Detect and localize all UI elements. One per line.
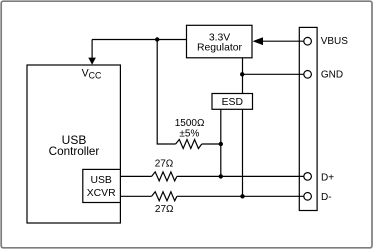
wire resistor R1 to ESD pin line bbox=[202, 143, 221, 145]
wire GND horizontal bbox=[242, 73, 304, 75]
arrowhead into regulator bbox=[253, 37, 263, 45]
pin D+ bbox=[304, 173, 312, 181]
wire junction down to 1500 resistor bbox=[157, 40, 175, 145]
wire VBUS to regulator bbox=[262, 40, 304, 42]
wire ESD pin A vertical to D+ bbox=[220, 109, 222, 176]
pin GND bbox=[304, 71, 312, 79]
wire D+ left segment bbox=[120, 175, 151, 177]
svg-text:VBUS: VBUS bbox=[321, 36, 349, 47]
svg-text:Regulator: Regulator bbox=[197, 42, 243, 53]
node junction R1 / ESD pin bbox=[219, 142, 223, 146]
wire VCC vertical drop bbox=[91, 40, 93, 59]
resistor R1 1500 ohm bbox=[176, 140, 202, 149]
svg-text:USB: USB bbox=[91, 175, 112, 186]
ESD box bbox=[212, 94, 253, 110]
svg-text:±5%: ±5% bbox=[179, 129, 199, 140]
wire D- left segment bbox=[120, 195, 151, 197]
svg-text:27Ω: 27Ω bbox=[155, 204, 174, 215]
resistor R3 27 ohm bbox=[152, 192, 177, 201]
node junction on GND line bbox=[240, 72, 244, 76]
node junction on D- line bbox=[240, 194, 244, 198]
svg-text:27Ω: 27Ω bbox=[155, 159, 174, 170]
resistor R2 27 ohm bbox=[152, 172, 177, 181]
svg-text:1500Ω: 1500Ω bbox=[175, 118, 205, 129]
svg-text:D+: D+ bbox=[321, 172, 334, 183]
pin VBUS bbox=[304, 37, 312, 45]
wire D- right segment bbox=[177, 195, 304, 197]
wire regulator output down to ESD top bbox=[242, 58, 244, 94]
USB Controller box U1 bbox=[27, 65, 120, 223]
pin D- bbox=[304, 193, 312, 201]
svg-text:GND: GND bbox=[321, 70, 343, 81]
svg-text:Controller: Controller bbox=[49, 145, 100, 158]
arrowhead into controller bbox=[88, 58, 96, 65]
node junction on D+ line bbox=[219, 174, 223, 178]
svg-text:D-: D- bbox=[321, 192, 332, 203]
wire ESD pin B vertical to D- bbox=[242, 109, 244, 196]
node junction on VCC wire bbox=[155, 37, 159, 41]
USB XCVR box bbox=[83, 169, 121, 202]
svg-text:XCVR: XCVR bbox=[87, 188, 116, 199]
3.3V Regulator box bbox=[187, 25, 253, 58]
wire D+ right segment bbox=[177, 175, 304, 177]
svg-text:ESD: ESD bbox=[222, 97, 243, 108]
wire VCC horizontal bbox=[92, 39, 186, 41]
USB connector J1 bbox=[299, 27, 317, 210]
svg-text:VCC: VCC bbox=[82, 67, 102, 80]
